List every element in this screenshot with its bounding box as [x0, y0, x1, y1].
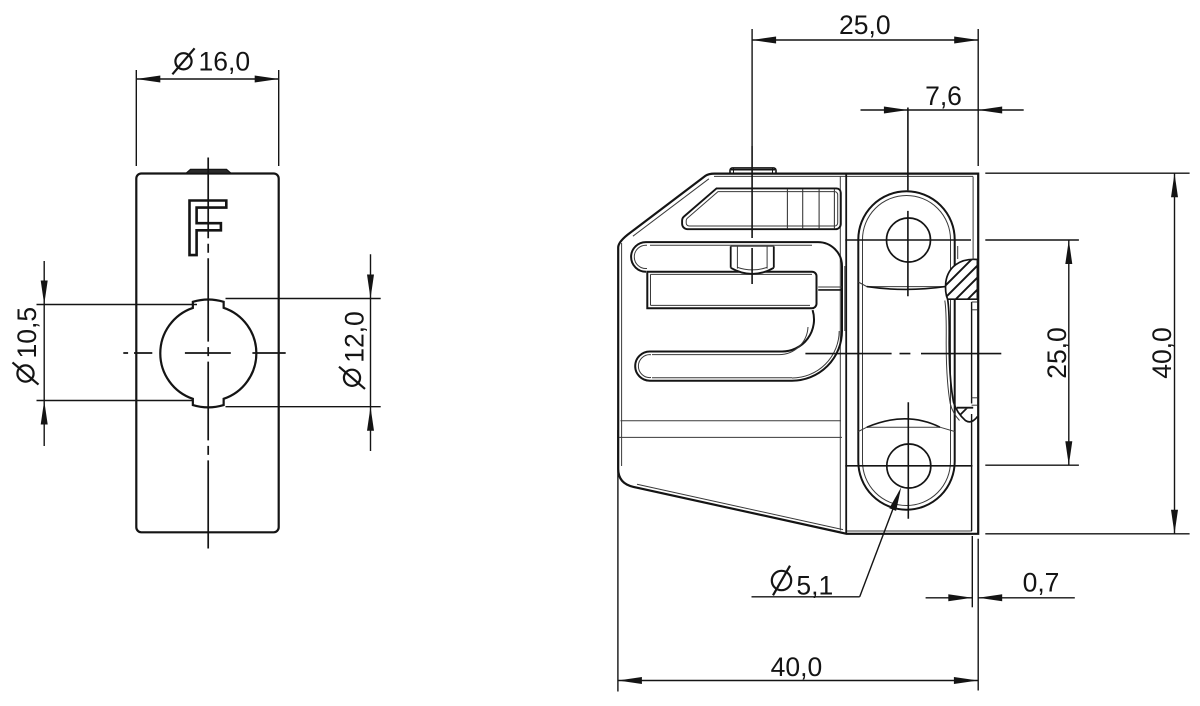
dimension 40,0 bottom : extension line left: [617, 430, 619, 692]
dimension 25,0 right : dimension line + arrows: [1068, 240, 1070, 465]
tongue outline: [647, 272, 816, 309]
dimension 25,0 right : extension lines: [985, 239, 1079, 241]
short edge above lip section: [957, 246, 959, 259]
thin line right face upper: [972, 177, 974, 260]
hatched lip cross-section (D-shape): [945, 259, 977, 299]
dimension 25,0 right : label (rotated): [1042, 327, 1072, 379]
leader Ø5,1 : label: [772, 566, 833, 601]
slot chamfer thin offsets: [650, 244, 812, 246]
upper window inner offset: [686, 192, 838, 226]
vertical centerline top tab (chain below dim): [751, 146, 753, 284]
main horizontal centerline right view: [805, 353, 1001, 355]
leader Ø5,1 : shoulder + slanted line + arrowhead: [752, 596, 860, 598]
dimension 7,6 : dimension line + outside arrows: [861, 109, 908, 111]
window ribs: [786, 189, 788, 229]
body band line lower: [619, 436, 842, 438]
lip seat line + small hatch: [957, 407, 973, 409]
screw nut seen through slot: [731, 246, 774, 274]
dimension Ø12,0 : extension lines: [226, 298, 381, 300]
junction body/plate thin edge: [839, 177, 841, 531]
dimension Ø12,0 : label (rotated): [339, 311, 370, 389]
svg-text:16,0: 16,0: [199, 47, 251, 77]
horizontal centerline left view: [123, 352, 285, 354]
svg-text:40,0: 40,0: [771, 652, 823, 682]
saddle scallop bottom: [858, 427, 954, 431]
svg-text:7,6: 7,6: [925, 81, 962, 111]
dimension Ø10,5 : extension lines: [37, 304, 198, 306]
svg-text:0,7: 0,7: [1023, 567, 1060, 597]
dimension 40,0 right : dimension line + arrows: [1174, 173, 1176, 534]
S-slot upper channel top edge + right turn + outer U: [635, 242, 842, 381]
dimension Ø16,0 : dimension line + arrows: [136, 78, 278, 80]
dimension Ø10,5 : label (rotated): [12, 307, 42, 385]
inner 3d edge left: [621, 243, 623, 466]
dimension Ø16,0 : label: [172, 47, 250, 77]
body outline left view: [136, 174, 278, 533]
tongue thin offsets: [651, 273, 813, 275]
S-slot cap thin offsets: [634, 245, 647, 268]
dimension 40,0 right : label (rotated): [1147, 327, 1177, 379]
lip curve outer: [948, 299, 978, 422]
hole crosshair horizontals: [845, 239, 971, 241]
dimension 0,7 : extension lines: [971, 536, 973, 607]
key tab side view (filled trapezoid on top): [186, 169, 231, 173]
dimension 40,0 right : extension lines: [985, 172, 1189, 174]
saddle scallop top: [858, 282, 954, 287]
bridge lines tongue to wall: [818, 286, 842, 288]
inner 3d edge bottom slant: [637, 484, 843, 529]
dimension Ø12,0 : dimension line + arrows: [370, 254, 372, 451]
svg-text:12,0: 12,0: [340, 311, 370, 363]
recess step on right face: [971, 302, 973, 404]
lip curve inner thin: [945, 301, 960, 421]
svg-text:10,5: 10,5: [12, 307, 42, 359]
svg-text:40,0: 40,0: [1147, 327, 1177, 379]
plate left edge: [845, 174, 847, 534]
inner 3d edge diagonal: [633, 179, 709, 236]
dimension Ø10,5 : dimension line + arrows: [43, 261, 45, 446]
vertical hole centerline chain: [907, 108, 909, 519]
svg-text:25,0: 25,0: [1042, 327, 1072, 379]
hole with keyways (circle + top/bottom tabs): [160, 300, 256, 408]
bottom hole: [887, 444, 931, 488]
engraved letter F: [190, 201, 227, 256]
plate bottom inner edge: [847, 530, 972, 532]
dimension 25,0 top : extension lines: [751, 29, 753, 146]
svg-text:25,0: 25,0: [839, 10, 891, 40]
boss stadium inner offset: [863, 196, 951, 506]
S-slot upper left cap: [631, 242, 646, 272]
dimension 0,7 : arrows + lines: [926, 597, 973, 599]
dimension 40,0 bottom : dimension line + arrows: [618, 680, 978, 682]
body outer contour right view: [618, 174, 978, 534]
top key tab: [730, 168, 776, 174]
boss stadium outer: [858, 191, 954, 509]
svg-text:5,1: 5,1: [796, 570, 833, 600]
top hole: [887, 218, 931, 262]
vertical centerline left view: [207, 158, 209, 549]
outer U thin offset: [844, 266, 846, 331]
dimension Ø16,0 : extension lines: [135, 70, 137, 166]
dimension 25,0 top : dimension line + arrows: [752, 39, 978, 41]
upper window outline: [682, 188, 841, 229]
inner 3d edge top: [714, 175, 973, 177]
body band line upper: [621, 420, 842, 422]
